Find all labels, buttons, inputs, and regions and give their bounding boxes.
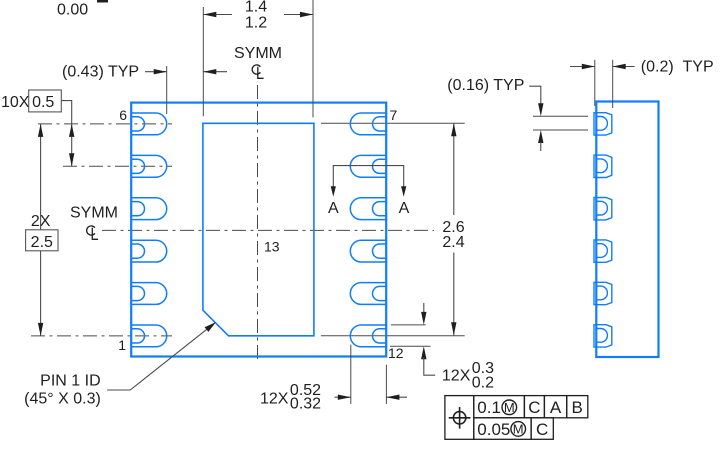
pin 2 pad	[132, 283, 167, 305]
side view pin 9 contact	[596, 201, 608, 215]
pin 4 pad	[132, 198, 167, 220]
svg-text:2.5: 2.5	[31, 234, 53, 251]
pin 7 pad	[350, 113, 386, 135]
pin 12 inner contact	[372, 329, 386, 343]
pin 2 inner contact	[132, 286, 145, 300]
svg-text:13: 13	[264, 238, 280, 254]
svg-text:12X: 12X	[260, 391, 289, 408]
side view pin 12 contact	[596, 329, 608, 343]
pin 3 inner contact	[132, 244, 145, 258]
side view pin 8 contact	[596, 159, 608, 173]
dimension 10X 0.5 pin pitch	[1, 90, 74, 166]
svg-text:0.05: 0.05	[477, 420, 510, 439]
dimension 2X 2.5 pin row span	[26, 124, 58, 336]
side view pin 10 terminal	[594, 240, 612, 262]
pin 8 pad	[350, 155, 386, 177]
pin 6 inner contact	[132, 117, 145, 131]
position tolerance symbol	[453, 412, 465, 424]
svg-text:0.2: 0.2	[472, 375, 494, 392]
svg-text:PIN 1 ID: PIN 1 ID	[40, 372, 100, 389]
pin 10 pad	[350, 240, 386, 262]
pin 1 pad	[132, 325, 167, 347]
svg-text:2.4: 2.4	[442, 234, 464, 251]
horizontal symmetry centerline	[102, 229, 434, 231]
svg-text:1.4: 1.4	[245, 0, 267, 16]
dimension (0.2) TYP terminal width	[570, 59, 714, 109]
section A-A marks	[328, 166, 410, 217]
datum feature control frame	[445, 396, 588, 440]
pin row 1 centerline	[31, 335, 172, 337]
svg-text:6: 6	[119, 107, 127, 123]
svg-text:M: M	[513, 422, 524, 437]
dimension 12X 0.52/0.32 pad length	[260, 345, 407, 413]
pin 11 inner contact	[372, 286, 386, 300]
side view pin 9 terminal	[594, 198, 612, 220]
svg-text:C: C	[536, 420, 548, 439]
centerline symbol left	[87, 226, 95, 235]
clipped box edge fragment	[97, 0, 108, 3]
svg-text:(0.16) TYP: (0.16) TYP	[447, 77, 524, 94]
pin 5 pad	[132, 155, 167, 177]
dimension 1.4/1.2 thermal pad width	[203, 0, 313, 117]
vertical symmetry centerline	[257, 85, 259, 363]
side view pin 7 contact	[596, 117, 608, 131]
PIN 1 ID callout	[24, 322, 216, 407]
svg-text:0.1: 0.1	[477, 398, 501, 417]
dimension 2.6/2.4 thermal pad length	[442, 123, 464, 335]
centerline symbol top	[252, 65, 260, 74]
pin 9 inner contact	[373, 202, 387, 216]
pin 8 inner contact	[373, 159, 387, 173]
svg-text:B: B	[572, 398, 583, 417]
svg-text:0.00: 0.00	[57, 2, 88, 19]
pin row 6 centerline	[38, 123, 172, 125]
side view pin 10 contact	[596, 244, 608, 258]
package body outline (side view)	[596, 102, 658, 358]
svg-text:1: 1	[118, 337, 126, 353]
svg-text:A: A	[550, 398, 562, 417]
svg-text:A: A	[328, 200, 339, 217]
pin 3 pad	[132, 240, 167, 262]
pin 4 inner contact	[132, 202, 145, 216]
pin row 12 extension line	[321, 335, 465, 337]
svg-text:TYP: TYP	[683, 59, 714, 76]
thermal pad 13 with pin-1 chamfer	[203, 123, 314, 335]
pin 1 inner contact	[132, 329, 145, 343]
pin 7 inner contact	[373, 117, 387, 131]
svg-text:7: 7	[390, 107, 398, 123]
side view pin 11 contact	[596, 286, 608, 300]
side view pin 7 terminal	[594, 113, 612, 135]
svg-text:12: 12	[388, 345, 404, 361]
svg-text:(45° X 0.3): (45° X 0.3)	[24, 391, 101, 408]
svg-text:12X: 12X	[442, 367, 471, 384]
side view pin 11 terminal	[594, 282, 612, 304]
svg-text:0.5: 0.5	[32, 94, 54, 111]
pin 9 pad	[350, 198, 386, 220]
svg-text:1.2: 1.2	[245, 15, 267, 32]
side view pin 12 terminal	[594, 325, 612, 347]
pin 10 inner contact	[372, 244, 386, 258]
svg-text:A: A	[399, 200, 410, 217]
pin 11 pad	[350, 283, 386, 305]
side view pin 8 terminal	[594, 155, 612, 177]
dimension (0.43) TYP pad-end to thermal pad gap	[62, 64, 227, 115]
pin row 7 extension line	[321, 122, 465, 124]
svg-text:(0.2): (0.2)	[641, 59, 674, 76]
pin 6 pad	[132, 113, 167, 135]
svg-text:SYMM: SYMM	[234, 45, 282, 62]
svg-text:SYMM: SYMM	[70, 205, 118, 222]
dimension 12X 0.3/0.2 pad width	[390, 303, 494, 392]
pin 5 inner contact	[132, 159, 145, 173]
svg-text:10X: 10X	[1, 94, 30, 111]
dimension (0.16) TYP lead thickness	[447, 77, 588, 151]
package body outline (top view)	[131, 103, 386, 357]
svg-text:0.32: 0.32	[290, 396, 321, 413]
pin 12 pad	[350, 325, 386, 347]
svg-text:M: M	[504, 400, 515, 415]
svg-text:C: C	[528, 398, 540, 417]
svg-text:(0.43) TYP: (0.43) TYP	[62, 64, 139, 81]
pin row 5 centerline	[63, 165, 172, 167]
